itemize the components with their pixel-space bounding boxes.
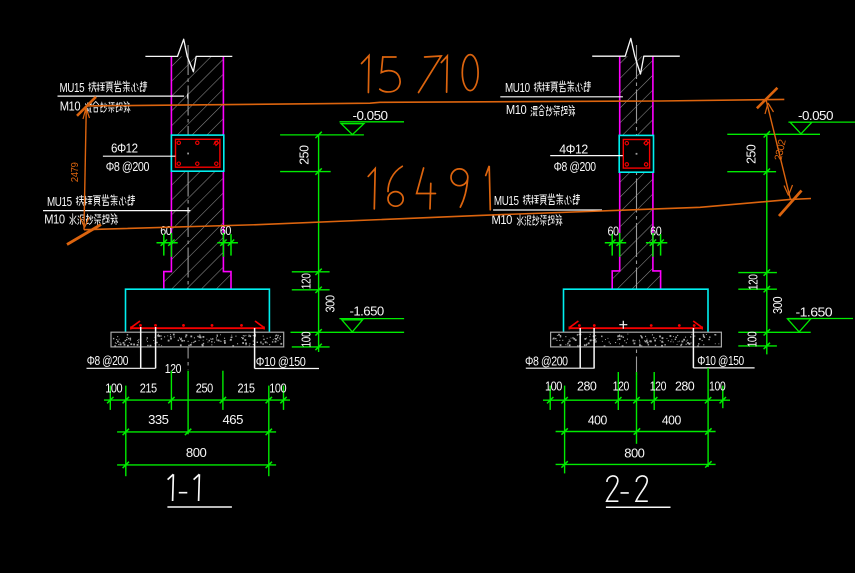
svg-text:400: 400: [588, 413, 607, 427]
long dimension line 16491: [84, 199, 811, 230]
dim 2302 diagonal: [766, 99, 791, 199]
big number 16491: [368, 166, 490, 210]
svg-text:M10: M10: [506, 102, 527, 117]
right wall hatch: [620, 56, 653, 135]
svg-text:100: 100: [746, 331, 760, 347]
right wall edge left: [612, 56, 620, 289]
svg-text:-1.650: -1.650: [350, 304, 385, 318]
right ring beam rebar dots: [625, 140, 649, 166]
left ring beam cyan: [171, 135, 223, 171]
svg-text:100: 100: [709, 379, 726, 393]
left footing rebar: [130, 321, 265, 328]
svg-text:-0.050: -0.050: [353, 109, 389, 123]
right ring beam center mark: [636, 153, 638, 155]
svg-text:250: 250: [745, 144, 759, 164]
right footing: [564, 289, 709, 332]
dim 2479 vertical: [84, 106, 86, 230]
left wall edge right: [223, 56, 231, 289]
svg-text:100: 100: [545, 379, 562, 393]
svg-text:MU15: MU15: [60, 80, 85, 95]
svg-text:Φ10 @150: Φ10 @150: [256, 355, 306, 369]
left ring beam red stirrup: [176, 139, 220, 167]
left footing: [126, 289, 270, 332]
right axis centerline: [636, 45, 638, 375]
title 1-1: [168, 474, 200, 501]
svg-text:-0.050: -0.050: [798, 109, 833, 123]
svg-text:280: 280: [577, 379, 597, 393]
svg-text:215: 215: [238, 382, 255, 396]
left footing leader phi10: [255, 328, 319, 369]
svg-text:MU15: MU15: [47, 194, 72, 209]
svg-text:Φ8 @200: Φ8 @200: [106, 160, 150, 174]
right dim row3: [556, 463, 716, 465]
left dim row2: [117, 431, 276, 433]
svg-text:280: 280: [675, 379, 695, 393]
svg-text:M10: M10: [60, 98, 81, 113]
right vertical dim chain: [727, 134, 810, 354]
title 2-2: [607, 476, 648, 501]
right dim row1: [543, 368, 730, 474]
svg-text:120: 120: [650, 379, 667, 393]
left ring beam center mark: [187, 153, 189, 155]
svg-text:250: 250: [196, 382, 213, 396]
right ring beam red stirrup: [623, 140, 649, 169]
svg-text:60: 60: [160, 224, 172, 238]
svg-text:60: 60: [607, 224, 619, 238]
svg-text:100: 100: [105, 382, 122, 396]
svg-text:Φ10 @150: Φ10 @150: [697, 354, 744, 368]
svg-text:120: 120: [299, 273, 313, 289]
svg-text:400: 400: [662, 413, 681, 427]
right break line: [592, 38, 680, 74]
big number 15710: [362, 55, 479, 93]
svg-text:120: 120: [613, 379, 630, 393]
left break line: [145, 39, 232, 72]
left axis centerline: [187, 45, 189, 369]
left wall hatch: [171, 56, 223, 135]
right ring beam cyan: [619, 135, 653, 172]
svg-text:250: 250: [297, 145, 311, 165]
svg-text:335: 335: [148, 413, 169, 427]
left dim row3: [117, 464, 276, 466]
right bedding strip: [551, 332, 722, 347]
right footing rebar: [569, 321, 703, 328]
svg-text:800: 800: [186, 446, 207, 460]
svg-text:120: 120: [165, 362, 182, 376]
svg-text:215: 215: [140, 382, 157, 396]
right wall edge right: [653, 56, 661, 289]
svg-text:465: 465: [223, 413, 244, 427]
svg-text:300: 300: [324, 295, 338, 313]
svg-text:300: 300: [771, 296, 785, 314]
svg-text:800: 800: [624, 446, 645, 460]
svg-text:M10: M10: [44, 211, 65, 226]
svg-text:MU10: MU10: [505, 80, 530, 95]
svg-text:2479: 2479: [69, 162, 81, 182]
left dim row1: [104, 371, 290, 477]
svg-text:100: 100: [299, 331, 313, 347]
left footing leader phi8: [87, 327, 156, 368]
left bedding strip: [111, 332, 284, 347]
right footing leader phi8: [526, 328, 595, 368]
svg-text:-1.650: -1.650: [796, 306, 833, 320]
svg-text:Φ8 @200: Φ8 @200: [554, 160, 596, 174]
svg-text:100: 100: [269, 382, 286, 396]
svg-text:Φ8 @200: Φ8 @200: [525, 354, 568, 368]
svg-text:Φ8 @200: Φ8 @200: [87, 354, 129, 368]
svg-text:6Φ12: 6Φ12: [111, 142, 138, 156]
left vertical dim chain: [280, 135, 404, 352]
svg-text:120: 120: [747, 274, 761, 290]
svg-text:4Φ12: 4Φ12: [559, 143, 588, 157]
left wall edge left: [164, 56, 172, 289]
right dim row2: [556, 431, 716, 433]
right footing leader phi10: [693, 328, 754, 368]
long dimension line 15710: [87, 99, 785, 106]
svg-text:MU15: MU15: [494, 193, 519, 208]
left ring beam rebar dots: [177, 141, 219, 166]
right footing center blip: [619, 321, 627, 329]
